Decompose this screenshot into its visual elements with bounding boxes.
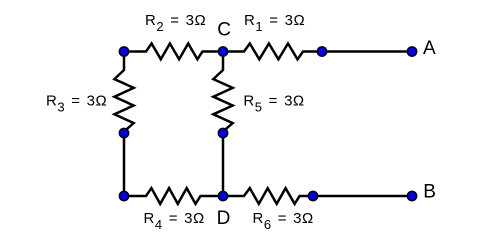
wire mid-to-D — [222, 133, 225, 196]
node C junction — [218, 47, 227, 56]
svg-text:D: D — [217, 208, 231, 229]
svg-text:C: C — [217, 20, 231, 41]
wire node-to-B — [313, 195, 412, 198]
resistor R4 — [124, 188, 223, 204]
node after R1 — [317, 47, 326, 56]
terminal B — [407, 191, 416, 200]
resistor R6 — [223, 188, 313, 204]
node mid-center (R5 bottom) — [218, 128, 227, 137]
svg-text:B: B — [423, 182, 436, 203]
node bottom-left junction — [119, 191, 128, 200]
resistor R2 — [124, 44, 223, 60]
resistor R1 — [223, 44, 322, 60]
node D junction — [218, 191, 227, 200]
resistor R3 — [114, 52, 133, 132]
node top-left junction — [119, 47, 128, 56]
resistor R5 — [213, 52, 232, 132]
wire node-to-A — [322, 50, 412, 53]
terminal A — [407, 47, 416, 56]
node after R6 — [308, 191, 317, 200]
wire left-mid-to-bottom — [123, 133, 126, 196]
svg-text:A: A — [423, 38, 436, 59]
node mid-left (R3 bottom) — [119, 128, 128, 137]
